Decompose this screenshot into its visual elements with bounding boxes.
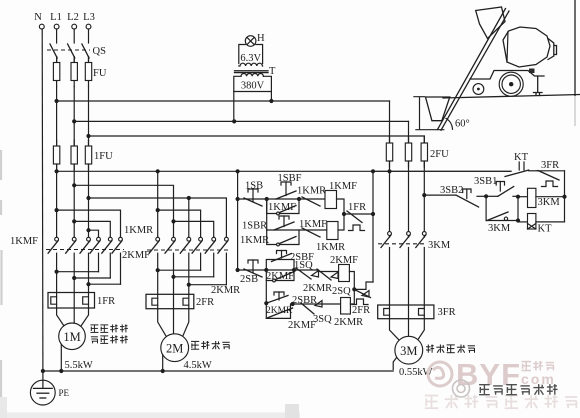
wire bottom PEN bus (43, 370, 393, 372)
pushbutton 2SB (NC stop) (248, 260, 258, 263)
pushbutton 3SB2 (NC stop) (456, 195, 479, 207)
wire 2FU pole2 vertical to 3KM (408, 161, 410, 237)
svg-text:1M: 1M (63, 330, 80, 344)
scan smudge left edge (0, 150, 3, 418)
fuse FU pole L2 (73, 57, 75, 87)
mixer hitch block (529, 69, 535, 74)
pushbutton 1SB (NC stop) (248, 189, 258, 192)
wire 1FR to motor 1M leads (57, 308, 64, 326)
pushbutton 1SBR (NO start rev) (279, 216, 289, 219)
junction right rail 1FR (371, 212, 375, 216)
junction row4 (264, 301, 268, 305)
svg-text:380V: 380V (241, 81, 265, 92)
svg-text:1KMR: 1KMR (240, 235, 269, 246)
motor 3M (395, 336, 423, 364)
junction 1FR node (342, 212, 346, 216)
transformer T core (235, 70, 269, 72)
wire node A to 3KM coil (518, 196, 528, 198)
wire merge 2KMF/2KMR pole1 (158, 269, 201, 271)
svg-text:1FU: 1FU (94, 151, 113, 162)
fuse FU pole L1 (56, 57, 58, 87)
wire L2 vertical FU to 1FU (73, 87, 75, 147)
watermark diangong dianqi xuexi dark (479, 384, 490, 386)
svg-text:L2: L2 (67, 12, 79, 23)
mixer drum front edge (507, 32, 508, 63)
wire control bus y171 from L1 to KT (57, 170, 511, 172)
svg-text:3KM: 3KM (538, 197, 561, 208)
wire coil 1KMR to 1FR node (338, 214, 344, 230)
coil KT (time relay) (528, 214, 536, 230)
thermal relay 1FR heater box (48, 293, 95, 309)
pushbutton 3SB1 (NO start) (486, 195, 498, 197)
mixer skip bucket (476, 7, 505, 39)
svg-text:3SB1: 3SB1 (474, 176, 497, 187)
limit switch 1SQ (NC) (294, 269, 318, 271)
svg-text:1SQ: 1SQ (294, 260, 313, 271)
junction L3 bus (86, 134, 90, 138)
switch QS linkage dashed (47, 49, 90, 51)
wire row2 (267, 229, 327, 231)
pushbutton 1SBF (NO start fwd) (281, 182, 291, 185)
contact 3FR (NC thermal) (537, 170, 565, 172)
svg-text:1SB: 1SB (245, 181, 263, 192)
contact 2KMR self-hold (NO) (267, 308, 293, 318)
contactor 1KMF main contact pole1 (56, 236, 58, 238)
coil 1KMR (327, 222, 338, 240)
junction feed branches motor2 (187, 196, 191, 200)
svg-text:1SBR: 1SBR (242, 221, 267, 232)
watermark BYF logo circle (428, 362, 452, 386)
svg-text:T: T (269, 66, 276, 77)
svg-text:KT: KT (514, 152, 529, 163)
svg-text:2KMF: 2KMF (266, 271, 294, 282)
watermark baifangwang 百方网 (522, 361, 532, 363)
svg-text:3FR: 3FR (541, 160, 559, 171)
thermal relay 2FR heater box (146, 294, 194, 308)
fuse 1FU pole L3 (88, 140, 90, 170)
wire 1KMF outputs to 1FR (56, 272, 58, 293)
contactor 1KMR main contact pole3 (120, 236, 122, 238)
ground PE symbol (30, 380, 55, 405)
contact 1KMF self-hold (NO) (277, 212, 280, 215)
wire 3SB2 feed from 2FU pole3 (424, 194, 456, 196)
svg-text:3KM: 3KM (428, 240, 451, 251)
svg-text:2KMR: 2KMR (303, 283, 332, 294)
linkage dashed 3KM (378, 243, 427, 245)
svg-text:1KMF: 1KMF (299, 219, 327, 230)
wire N vertical from terminal to bottom bus (41, 29, 44, 371)
wire coil 2KMR to 2SQ node (350, 289, 354, 304)
coil 2KMR (341, 298, 351, 315)
mixer skip track rails (438, 9, 510, 131)
secondary box 6.3V (239, 45, 263, 64)
svg-text:2FR: 2FR (352, 305, 370, 316)
fuse 1FU pole L1 (56, 140, 58, 170)
junction 2SQ node (352, 287, 356, 291)
wire feed motor2 phase1 vertical (157, 171, 159, 237)
wire bus phase-C y136 from L3 to 2FU (89, 135, 425, 137)
junction node A (516, 195, 520, 199)
switch QS pole L3 (88, 29, 90, 43)
wire 3FR to motor 3M leads (390, 319, 400, 341)
svg-text:2M: 2M (166, 342, 183, 356)
wire merge 1KMF/1KMR pole2 (74, 277, 110, 279)
junction row3 (236, 268, 240, 272)
wire transformer left lead to bus B (233, 92, 235, 122)
svg-text:FU: FU (93, 68, 107, 79)
fuse 1FU pole L2 (73, 140, 75, 170)
svg-text:N: N (34, 12, 42, 23)
svg-text:6.3V: 6.3V (240, 53, 261, 64)
pushbutton 2SBR (NO down) (266, 296, 288, 304)
contact 1KMR self-hold (NO) (277, 243, 280, 246)
motor 2M (161, 334, 189, 362)
svg-text:1FR: 1FR (97, 296, 115, 307)
wire row2 tap (266, 199, 268, 230)
wire coil 2KMF to 2SQ node (349, 272, 354, 290)
wire merge 2KMF/2KMR pole3 (189, 284, 227, 286)
label motor3 chinese 供水抽水泵 (427, 345, 429, 353)
wire branch to 2KMR col2 (174, 221, 214, 237)
junction after 3SB2 (484, 194, 488, 198)
label motor1 chinese 正转搅拌 (90, 324, 98, 326)
contactor 3KM main contact pole1 (389, 232, 391, 238)
watermark qq logo circle (453, 380, 470, 397)
junction row1 tap (236, 197, 240, 201)
mixer chassis frame (470, 71, 544, 80)
svg-text:1KMF: 1KMF (10, 236, 38, 247)
wire L3 vertical 1FU to 1KMF (88, 164, 90, 237)
motor 1M (59, 323, 86, 350)
svg-text:1KMR: 1KMR (316, 242, 345, 253)
scan smudge bottom (0, 413, 300, 418)
wire L1 vertical FU to 1FU (56, 87, 58, 147)
wire bus L2 branch y185 to motor2 (74, 185, 173, 237)
svg-text:1SBF: 1SBF (278, 173, 302, 184)
lamp H (245, 36, 256, 47)
svg-text:3KM: 3KM (488, 223, 511, 234)
junction L2 bus (72, 119, 76, 123)
svg-text:PE: PE (59, 388, 70, 398)
mixer dimension line (414, 97, 444, 130)
contactor 2KMF main contact pole1 (157, 236, 159, 238)
wire 2KMR self-hold branch row4 (266, 304, 290, 318)
contactor 2KMR main contact pole1 (200, 236, 202, 238)
mixer drum end cone (548, 39, 557, 60)
mixer drum (503, 27, 550, 67)
wire KT coil row (518, 221, 528, 223)
contactor 2KMR main contact pole3 (225, 236, 227, 238)
junction merge motor2 (156, 268, 160, 272)
wire motor 2M frame to bus (162, 355, 164, 371)
time relay contact KT (NC delayed) (518, 162, 520, 170)
svg-text:1FR: 1FR (348, 202, 366, 213)
wire 2FR to motor 2M leads (158, 309, 166, 336)
svg-text:2KMF: 2KMF (288, 320, 316, 331)
wire KT coil to rail (536, 221, 565, 223)
junction node A lower (516, 218, 520, 222)
wire L2 vertical 1FU to 1KMF (73, 164, 75, 237)
switch QS pole L1 (56, 29, 58, 43)
contactor 3KM main contact pole3 (423, 232, 425, 238)
wire merge 1KMF/1KMR pole1 (57, 271, 99, 273)
svg-text:L1: L1 (50, 12, 62, 23)
wire coil 1KMF to 1FR node (337, 199, 345, 214)
wire row3 (238, 269, 296, 271)
wire row1 (238, 198, 325, 200)
wire node A vertical (517, 197, 519, 222)
coil 2KMF (339, 265, 350, 282)
contactor 2KMR main contact pole2 (213, 236, 215, 238)
svg-text:1KMR: 1KMR (124, 225, 153, 236)
fuse 2FU pole3 (423, 137, 425, 167)
mixer 60 degree arc (446, 118, 453, 129)
wire branch to 2KMR col1 (158, 210, 201, 237)
junction feed branches motor1 (55, 208, 59, 212)
svg-text:1KMF: 1KMF (329, 181, 357, 192)
contactor 1KMF main contact pole2 (73, 236, 75, 238)
svg-text:QS: QS (93, 46, 107, 57)
contactor 2KMF main contact pole2 (173, 236, 175, 238)
wire rail jog to 2FU pole1 (373, 170, 390, 172)
wire KT feed y171 (390, 170, 512, 172)
svg-text:2SB: 2SB (240, 274, 258, 285)
contactor 1KMR main contact pole2 (109, 236, 111, 238)
mixer feed hopper (pit) (426, 97, 450, 121)
transformer T secondary winding (239, 63, 263, 66)
svg-text:2SQ: 2SQ (332, 286, 351, 297)
switch QS pole L2 (73, 29, 75, 43)
limit switch 3SQ (NC) (293, 303, 341, 305)
wire row4 tap (265, 281, 267, 319)
svg-text:3SB2: 3SB2 (440, 185, 463, 196)
junction 3SB2 tap on pole3 (422, 193, 426, 197)
svg-text:3M: 3M (400, 344, 417, 358)
mixer big wheel (499, 72, 523, 96)
wire transformer right lead to bus A (270, 92, 272, 102)
svg-text:H: H (257, 33, 265, 44)
svg-text:KT: KT (538, 224, 553, 235)
wire 3KM coil to rail (536, 196, 565, 198)
contact 3KM self-hold (NO) (504, 217, 507, 220)
label motor2 chinese 进料升降 (191, 340, 199, 342)
wire 2KMF outputs to 2FR (157, 270, 159, 294)
wire motor 3M frame to bus (393, 358, 396, 370)
contact 2FR (NC thermal) (354, 282, 373, 289)
wire branch L3 to 1KMR col1 (89, 230, 99, 237)
limit switch 2SQ (NC) (354, 289, 370, 297)
junction pump rail (562, 195, 566, 199)
svg-text:L3: L3 (83, 12, 95, 23)
junction merge row3 (292, 268, 296, 272)
coil 3KM (528, 188, 536, 207)
mixer jack support (534, 76, 543, 96)
wire branch L2 to 1KMR col2 (74, 221, 110, 237)
junction bottom bus (41, 369, 45, 373)
svg-text:2FU: 2FU (430, 149, 449, 160)
svg-text:2FR: 2FR (196, 297, 214, 308)
wire control left rail (237, 171, 239, 270)
svg-text:3FR: 3FR (438, 307, 456, 318)
svg-text:2KMR: 2KMR (334, 317, 363, 328)
transformer T primary winding (241, 74, 263, 77)
watermark zhongguo dianqi light diagonal (425, 395, 438, 397)
contact 2KMR interlock (NC) row3 (318, 271, 339, 273)
illustration frame right edge (574, 0, 576, 96)
wire 2KMF self-hold branch below (266, 270, 294, 281)
wire bus phase-A y101 from L1 to 2FU (57, 100, 390, 102)
wire 3SB1 to node A (513, 195, 518, 197)
wire pump right rail (564, 171, 566, 222)
junction bus y171 (55, 169, 59, 173)
svg-text:2KMF: 2KMF (122, 250, 150, 261)
svg-text:2KMF: 2KMF (330, 255, 358, 266)
mixer illustration ground line (443, 95, 580, 99)
linkage dashed 2KMF/2KMR (147, 249, 230, 251)
mixer small wheel (473, 84, 484, 95)
contactor 1KMF main contact pole3 (88, 236, 90, 238)
contact 1FR (NC thermal) (344, 213, 373, 215)
coil 1KMF (325, 191, 337, 209)
wire 3KM self-hold branch (485, 196, 487, 220)
fuse FU pole L3 (88, 57, 90, 87)
junction merge row4 (291, 302, 295, 306)
contact 2KMF self-hold (NO) (273, 279, 276, 282)
svg-text:5.5kW: 5.5kW (65, 360, 93, 371)
wire 2FU pole1 vertical to 3KM (389, 161, 391, 237)
linkage dashed 1KMF/1KMR (46, 249, 124, 251)
wire bus phase-B y121 from L2 to 2FU (74, 120, 408, 122)
wire L3 vertical FU to 1FU (88, 87, 90, 147)
svg-text:2KMR: 2KMR (211, 285, 240, 296)
svg-text:2KMR: 2KMR (266, 306, 293, 316)
primary box 380V (234, 76, 272, 91)
contactor 3KM main contact pole2 (408, 232, 410, 238)
contactor 1KMR main contact pole1 (98, 236, 100, 238)
wire 2SBF branch above (266, 260, 294, 271)
pushbutton 2SBF (NO up) (277, 251, 287, 254)
wire control right rail (372, 171, 374, 282)
wire merge 2KMF/2KMR pole2 (174, 276, 214, 278)
fuse 2FU pole1 (389, 137, 391, 167)
wire 1KMR self-hold branch row2 (267, 230, 299, 245)
svg-text:1KMR: 1KMR (297, 186, 326, 197)
wire 1KMF self-hold branch row1 (267, 199, 299, 214)
svg-text:1KMF: 1KMF (268, 202, 296, 213)
label motor1 chinese 反转倒料 (91, 336, 98, 338)
junction merge motor1 (55, 270, 59, 274)
wire merge 1KMF/1KMR pole3 (89, 283, 121, 285)
contact 1KMF interlock (NC) row2 (302, 228, 320, 237)
junction after 1SB (265, 197, 269, 201)
junction after 1SBF (297, 197, 301, 201)
junction after 2SB (264, 268, 268, 272)
wire L1 vertical 1FU to 1KMF (56, 164, 58, 237)
wire 2FU pole3 vertical to 3KM (423, 161, 425, 237)
contact 1KMR interlock (NC) row1 (302, 197, 320, 206)
svg-text:60°: 60° (455, 119, 470, 130)
thermal relay 3FR heater box (378, 305, 434, 319)
junction L1 bus (55, 99, 59, 103)
wire branch L1 to 1KMR col3 (57, 210, 121, 237)
fuse 2FU pole2 (408, 137, 410, 167)
svg-text:4.5kW: 4.5kW (184, 360, 212, 371)
wire bus L3 branch y198 to motor2 (89, 198, 227, 237)
contactor 2KMF main contact pole3 (188, 236, 190, 238)
wire motor 1M frame to bus (60, 344, 62, 371)
